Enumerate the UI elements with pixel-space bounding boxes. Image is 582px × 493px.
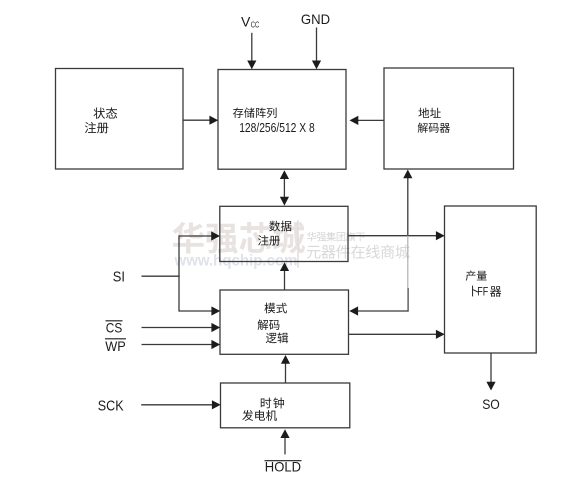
pin label VCC [241,14,259,30]
block: clock generator (时钟发电机) [221,383,350,428]
svg-text:HOLD: HOLD [265,458,301,474]
watermark logo text [172,222,304,254]
wire: status register to memory array [183,116,218,125]
wire: CS into mode decode logic [142,323,221,332]
wire: HOLD into clock generator [280,429,289,454]
watermark slogan line 1 [307,232,365,242]
svg-text:CC: CC [251,21,260,30]
wire: SCK into clock generator [141,400,221,409]
wire: GND into memory array [312,28,321,70]
pin label HOLD (active low) [265,458,302,474]
watermark separator line [297,220,299,268]
pin label SCK [98,397,124,414]
wire: output buffer to SO [486,354,495,391]
wire: address decoder to memory array [350,116,385,125]
block: output buffer (产量 卜FF器) [445,206,537,353]
block: memory array (存储阵列 128/256/512 X 8) [218,70,346,170]
pin label CS (active low) [106,320,123,336]
svg-text:GND: GND [301,11,330,27]
block: data register (数据注册) [220,206,348,261]
block: address decoder (地址解码器) [384,68,514,169]
wire: mode decode logic to output buffer [349,330,445,339]
svg-text:V: V [241,14,251,30]
wire: data register to output buffer [348,231,445,240]
wire: clock generator up into mode decode logic [281,355,290,383]
wire: VCC into memory array [247,33,256,70]
watermark url text [174,253,298,270]
svg-text:CS: CS [106,320,122,336]
svg-text:SCK: SCK [98,397,124,414]
block: mode decode logic (模式解码逻辑) [220,290,349,354]
wire: SI branch into data register [179,231,220,240]
pin label WP (active low) [105,338,126,354]
watermark slogan line 2 [307,245,410,259]
svg-text:WP: WP [105,338,126,354]
wire: WP into mode decode logic [142,340,221,349]
svg-text:SO: SO [482,396,500,412]
pin label SI [113,268,125,285]
wire: SI feeder [142,275,180,277]
wire: branch into mode decode logic right side [349,306,408,315]
svg-text:SI: SI [113,268,125,285]
svg-text:128/256/512 X 8: 128/256/512 X 8 [239,121,315,135]
wire: mode decode logic up into data register [280,262,289,290]
wire: memory array <-> data register (bidirectional) [280,170,289,205]
wire: SI vertical branch [178,235,180,311]
block: status register (状态注册) [56,69,184,170]
svg-text:FF: FF [477,284,488,298]
pin label GND [301,11,330,27]
pin label SO [482,396,500,412]
wire: SI branch into mode decode logic [179,306,220,315]
wire: vertical branch up into address decoder [403,170,412,236]
wire: vertical branch down (faded segment) [407,236,409,312]
